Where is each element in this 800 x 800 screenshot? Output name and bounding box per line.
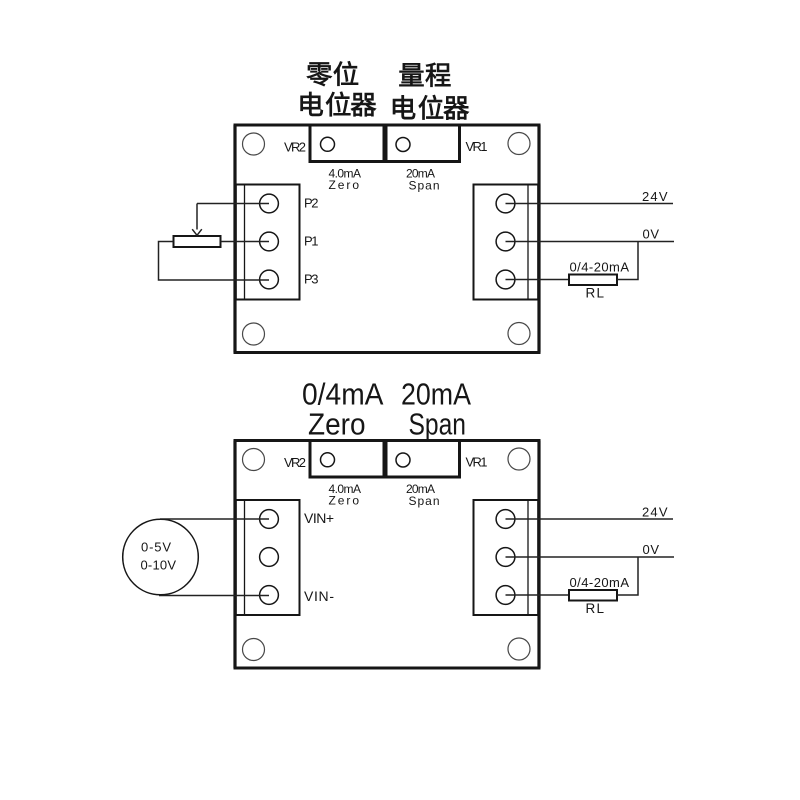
wire output to RL [506,594,570,596]
mounting hole top-right [508,448,530,470]
mounting hole top-left [243,449,265,471]
left terminal 1 [260,194,279,213]
svg-text:VIN-: VIN- [304,588,334,604]
svg-text:Zero: Zero [329,178,360,192]
svg-text:Span: Span [409,179,440,193]
right board edge (thick) [537,125,540,353]
right terminal block [474,185,539,300]
svg-text:24V: 24V [642,505,668,520]
svg-text:P3: P3 [304,272,319,287]
wire source to VIN+ [160,518,269,520]
right terminal 0V [496,548,515,567]
svg-text:Span: Span [409,407,467,442]
wire 0V [506,241,675,243]
left board edge (thick) [233,125,236,353]
left terminal 3 [260,270,279,289]
module board outline [235,441,539,669]
wire wiper to P2 [197,203,269,205]
label 20mA Span [406,482,440,508]
right terminal output [496,270,515,289]
wire output to RL [506,279,570,281]
right terminal 0V [496,232,515,251]
resistor RL [569,275,617,286]
svg-text:24V: 24V [642,189,668,204]
potentiometer VR2 package [310,125,384,162]
title 20mA Span [401,377,471,442]
voltage source circle 0-5V/0-10V [123,519,199,595]
left terminal 2 [260,232,279,251]
wire RL to 0V [617,242,638,280]
left terminal 3 [260,586,279,605]
left terminal 2 [260,548,279,567]
mounting hole bottom-left [243,639,265,661]
svg-text:RL: RL [586,601,605,616]
title 零位电位器 (zero potentiometer) [301,61,376,116]
mounting hole bottom-right [508,323,530,345]
left terminal block [236,500,300,615]
module board outline [235,125,539,353]
title 量程电位器 (span potentiometer) [393,63,469,120]
svg-text:P2: P2 [304,196,319,211]
left board edge (thick) [233,441,236,669]
label 4.0mA Zero [329,167,362,193]
svg-text:0V: 0V [643,227,660,242]
svg-text:0/4-20mA: 0/4-20mA [570,260,630,275]
wire source to VIN- [159,595,269,597]
wire pot left end to P3 [159,242,270,281]
wire pot right end to P1 [221,241,270,243]
mounting hole top-left [243,133,265,155]
svg-text:VR2: VR2 [284,455,306,470]
right terminal block [474,500,539,615]
left terminal 1 [260,510,279,529]
potentiometer VR1 package [386,125,460,162]
right terminal 24V [496,194,515,213]
potentiometer VR2 package [310,441,384,478]
mounting hole bottom-right [508,638,530,660]
wire RL to 0V [617,557,638,595]
left terminal block [236,185,300,300]
svg-text:VR1: VR1 [466,139,488,154]
svg-text:RL: RL [586,286,605,301]
svg-text:Span: Span [409,494,440,508]
svg-text:VR2: VR2 [284,140,306,155]
svg-text:0V: 0V [643,542,660,557]
svg-text:Zero: Zero [308,407,366,442]
resistor RL [569,590,617,601]
title 0/4mA Zero [302,377,384,442]
external potentiometer body [174,236,221,247]
svg-text:Zero: Zero [329,494,360,508]
wire 24V [506,203,674,205]
wire 24V [506,518,674,520]
wire 0V [506,556,675,558]
label 20mA Span [406,167,440,193]
right terminal output [496,586,515,605]
svg-text:VR1: VR1 [466,455,488,470]
svg-text:0/4-20mA: 0/4-20mA [570,575,630,590]
svg-text:0-5V: 0-5V [141,540,171,555]
svg-text:VIN+: VIN+ [304,510,334,526]
right board edge (thick) [537,441,540,669]
svg-text:0-10V: 0-10V [141,558,177,573]
mounting hole bottom-left [243,323,265,345]
right terminal 24V [496,510,515,529]
wiper arrow [192,204,202,236]
mounting hole top-right [508,133,530,155]
svg-text:P1: P1 [304,234,319,249]
potentiometer VR1 package [386,441,460,478]
label 4.0mA Zero [329,482,362,508]
